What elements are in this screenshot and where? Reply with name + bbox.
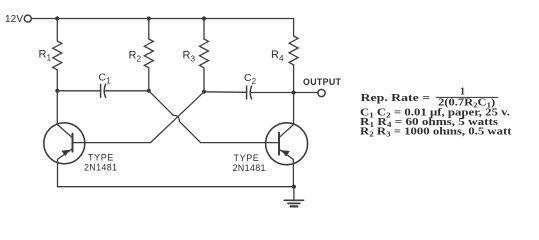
- label TYPE (Q2): [234, 153, 260, 163]
- wire cross diagonal R2 to Q2 base with hop: [149, 91, 201, 143]
- node top R2: [147, 16, 151, 20]
- node D R4 / C2 / output: [292, 91, 296, 95]
- label R1: [39, 49, 52, 63]
- label R2: [129, 50, 142, 64]
- label C2: [244, 72, 257, 86]
- wire R2 leads: [148, 19, 150, 91]
- capacitor C2: [247, 86, 252, 99]
- resistor R2: [144, 39, 153, 68]
- wire C1 left: [57, 90, 100, 92]
- wire Q1 base lead: [73, 142, 151, 144]
- svg-text:2N1481: 2N1481: [84, 162, 117, 172]
- wire Q2 base lead: [201, 142, 280, 144]
- svg-text:2N1481: 2N1481: [233, 163, 266, 173]
- note R1 R4 value: [360, 117, 498, 129]
- svg-text:Rep. Rate =: Rep. Rate =: [361, 93, 431, 104]
- resistor R4: [289, 36, 298, 65]
- wire output lead: [294, 92, 318, 94]
- formula Rep. Rate: [361, 87, 499, 110]
- svg-text:12V: 12V: [5, 14, 23, 25]
- wire R3 leads: [203, 19, 205, 92]
- node B base cross left: [147, 89, 151, 93]
- label C1: [99, 72, 112, 86]
- label TYPE (Q1): [88, 152, 114, 162]
- svg-text:C2: C2: [244, 72, 257, 86]
- node top R3: [202, 16, 206, 20]
- wire bottom rail: [58, 186, 294, 188]
- svg-text:1: 1: [460, 87, 465, 98]
- wire R1 bottom lead: [56, 70, 58, 91]
- wire C1 right: [105, 90, 149, 92]
- resistor R3: [200, 39, 209, 68]
- wire R4 bottom lead: [293, 65, 295, 93]
- node E ground junction: [292, 185, 296, 189]
- svg-text:OUTPUT: OUTPUT: [303, 77, 342, 87]
- note R2 R3 value: [360, 127, 512, 139]
- wire Q2 collector: [279, 93, 294, 138]
- label OUTPUT: [303, 77, 342, 87]
- transistor Q2: [266, 123, 308, 187]
- wire C2 right: [251, 92, 294, 94]
- label 12V: [5, 14, 23, 25]
- wire top rail: [32, 18, 294, 20]
- svg-text:C1: C1: [99, 72, 112, 86]
- svg-text:R4: R4: [271, 49, 284, 63]
- note C1 C2 value: [360, 108, 511, 120]
- node A collector Q1 / C1 left: [55, 89, 59, 93]
- svg-text:TYPE: TYPE: [88, 152, 114, 162]
- wire R1 top lead: [56, 19, 58, 42]
- label R3: [183, 50, 196, 64]
- wire cross diagonal R3 to Q1 base: [151, 92, 205, 143]
- wire C2 left: [204, 91, 247, 94]
- capacitor C1: [101, 84, 106, 97]
- transistor Q1: [44, 123, 85, 187]
- wire R4 top lead (rail corner): [293, 19, 295, 37]
- svg-text:R2 R3 = 1000 ohms, 0.5 watt: R2 R3 = 1000 ohms, 0.5 watt: [360, 127, 512, 139]
- output terminal: [318, 89, 325, 96]
- label 2N1481 (Q1): [84, 162, 117, 172]
- label 2N1481 (Q2): [233, 163, 266, 173]
- 12V input terminal: [24, 15, 31, 22]
- svg-text:R3: R3: [183, 50, 196, 64]
- svg-text:R2: R2: [129, 50, 142, 64]
- resistor R1: [53, 41, 62, 70]
- ground: [284, 187, 303, 207]
- node top R1: [55, 16, 59, 20]
- label R4: [271, 49, 284, 63]
- svg-text:TYPE: TYPE: [234, 153, 260, 163]
- wire Q1 collector: [57, 91, 72, 138]
- svg-text:R1: R1: [39, 49, 52, 63]
- node C base cross right: [202, 90, 206, 94]
